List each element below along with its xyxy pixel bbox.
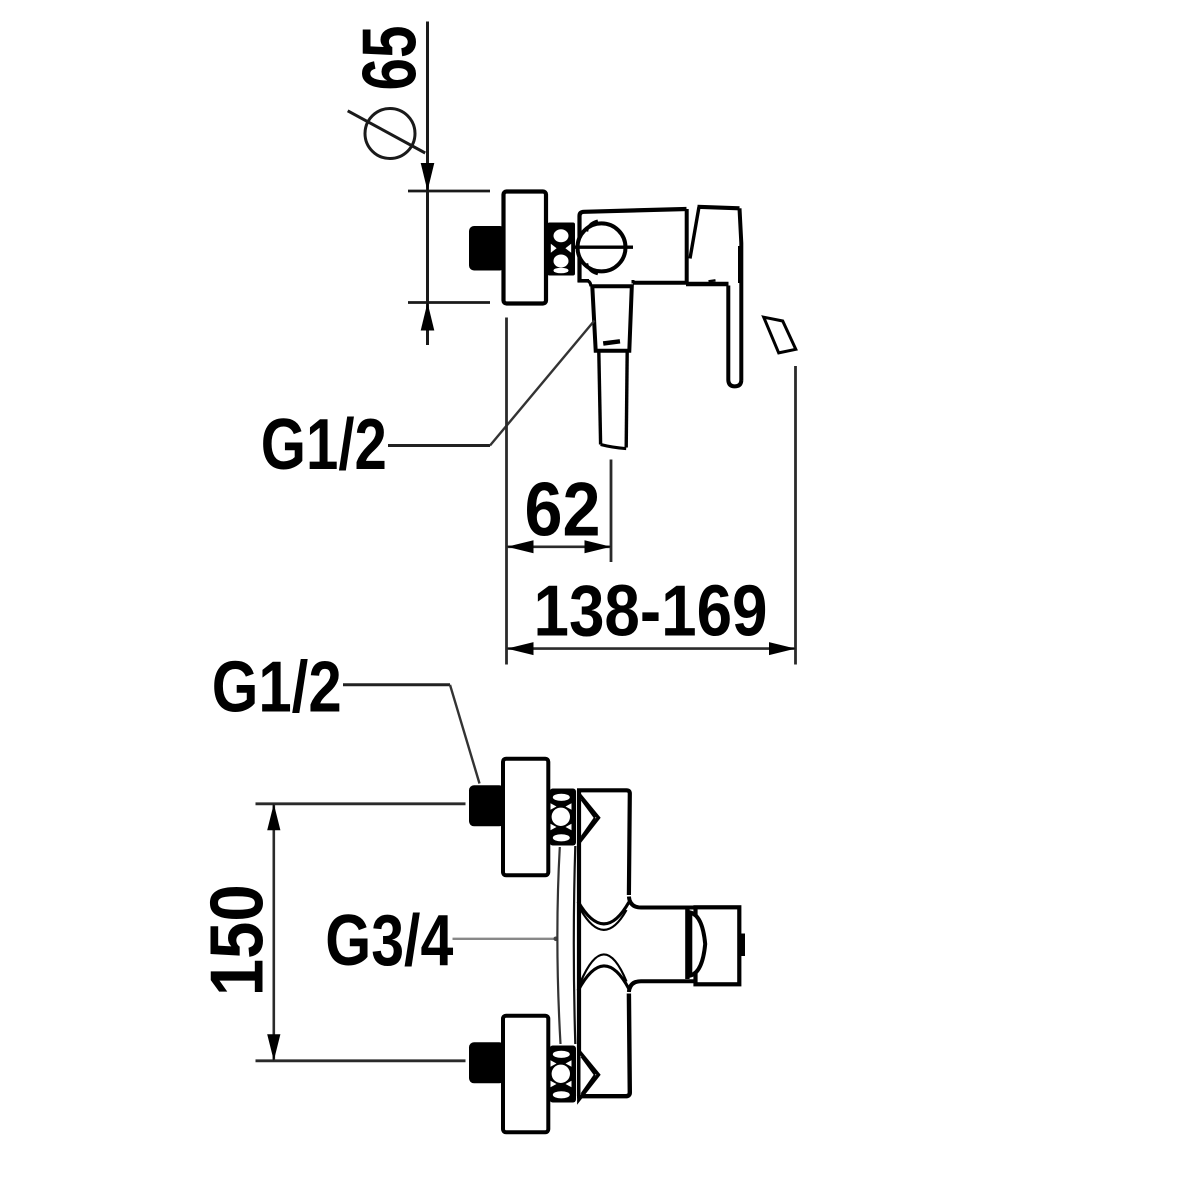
- svg-text:150: 150: [195, 884, 279, 996]
- svg-text:65: 65: [347, 26, 432, 91]
- svg-text:62: 62: [525, 468, 601, 553]
- svg-text:G3/4: G3/4: [325, 900, 453, 981]
- svg-text:138-169: 138-169: [534, 572, 768, 652]
- svg-text:G1/2: G1/2: [212, 647, 342, 728]
- svg-text:G1/2: G1/2: [261, 404, 387, 485]
